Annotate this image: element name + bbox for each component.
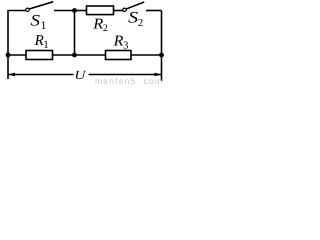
- node junction dot top: [72, 8, 77, 13]
- switch S1 blade: [29, 2, 53, 9]
- wire from R1 to middle junction: [53, 54, 75, 56]
- node junction dot middle-left: [6, 53, 11, 58]
- svg-text:1: 1: [41, 20, 47, 32]
- node junction dot middle-center: [72, 53, 77, 58]
- svg-text:manfen5. com: manfen5. com: [95, 76, 163, 86]
- svg-text:S: S: [128, 9, 138, 26]
- wire from junction to resistor R2: [75, 10, 87, 12]
- switch S2 pivot circle: [123, 8, 126, 11]
- arrowhead left of U line: [8, 73, 15, 77]
- resistor R3: [106, 51, 132, 60]
- resistor R1: [26, 51, 53, 60]
- wire from R2 to switch S2 pivot: [114, 10, 124, 12]
- wire from S2 to top-right corner: [146, 10, 162, 12]
- wire middle row left segment to R1: [8, 54, 26, 56]
- svg-text:U: U: [74, 68, 86, 82]
- resistor R2: [87, 6, 114, 15]
- arrowhead right of U line: [155, 73, 162, 77]
- wire left vertical rail: [7, 11, 9, 80]
- node junction dot middle-right: [159, 53, 164, 58]
- wire from top junction down to middle row: [74, 11, 76, 56]
- U dimension line left part: [8, 74, 74, 76]
- svg-text:R: R: [92, 17, 103, 33]
- svg-text:R: R: [113, 34, 124, 50]
- wire from S1 to top junction: [54, 10, 75, 12]
- U dimension line right part: [89, 74, 162, 76]
- switch S1 pivot circle: [26, 8, 29, 11]
- svg-text:2: 2: [138, 18, 143, 29]
- wire from middle junction to R3: [75, 54, 106, 56]
- wire top-left horizontal from corner to switch S1 pivot: [8, 10, 27, 12]
- wire right vertical rail: [161, 11, 163, 82]
- wire from R3 to right rail: [131, 54, 162, 56]
- svg-text:S: S: [31, 12, 41, 29]
- svg-text:3: 3: [123, 40, 128, 51]
- svg-text:1: 1: [43, 39, 49, 51]
- switch S2 blade: [126, 2, 144, 9]
- svg-text:2: 2: [103, 23, 108, 34]
